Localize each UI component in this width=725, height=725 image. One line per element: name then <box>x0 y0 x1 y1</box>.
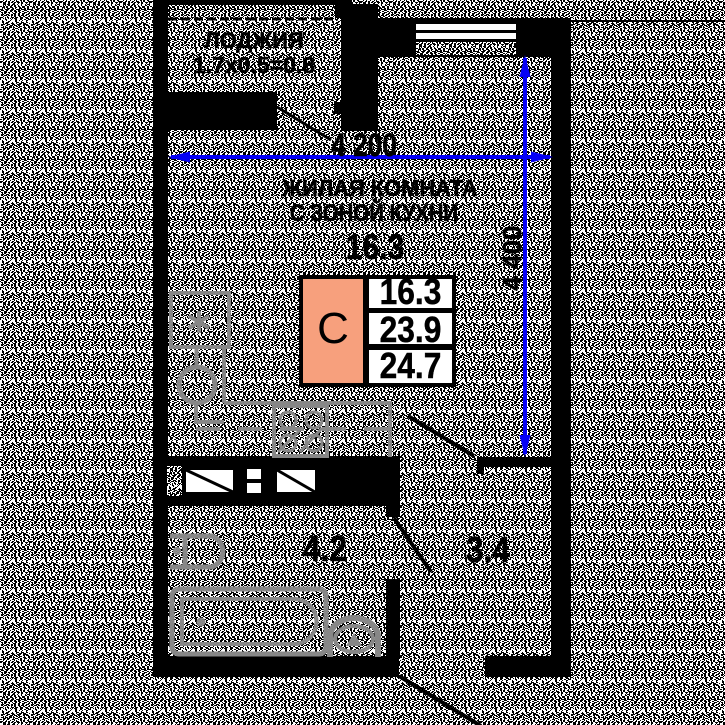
bathtub inner <box>182 599 317 644</box>
washbasin <box>170 536 223 567</box>
dim text 4200 <box>331 129 397 161</box>
wall interior vertical lower <box>386 579 400 659</box>
shaft gap noise <box>167 466 182 496</box>
shaft box B diagonal <box>274 467 318 495</box>
loggia area label <box>168 54 340 77</box>
wall interior vertical upper <box>386 456 400 517</box>
shaft box B <box>274 467 318 495</box>
info table row3 <box>369 350 452 383</box>
room label line2 <box>272 202 476 226</box>
window line 1 <box>416 30 516 33</box>
hob burners <box>278 412 322 452</box>
dimension 4400 line <box>523 58 527 454</box>
wall loggia top <box>153 0 351 5</box>
wall mid stub right <box>477 457 571 467</box>
wall loggia right upper <box>335 0 351 18</box>
shaft middle white marks <box>247 469 261 479</box>
info table row1 <box>369 279 452 308</box>
fridge-sink stub <box>195 347 199 368</box>
info table letter C <box>303 304 363 354</box>
dimension 4200 line <box>168 55 553 457</box>
top wall edge line into right margin <box>571 20 725 22</box>
dim text 4400 (rotated) <box>499 223 525 293</box>
sink circle <box>179 367 215 403</box>
info table frame <box>299 275 456 387</box>
shaft box A diagonal <box>183 467 236 495</box>
wall mid stub step <box>477 457 484 474</box>
loggia label <box>168 30 340 52</box>
window opening <box>416 24 516 42</box>
room area 16.3 <box>311 230 440 265</box>
bathtub drain <box>197 618 206 627</box>
wall bottom <box>153 656 399 677</box>
wall pier center top <box>341 4 378 131</box>
wall left outer <box>153 0 168 677</box>
table value 23.9 <box>374 312 447 348</box>
wall pier notch <box>334 102 341 114</box>
wall top band <box>378 18 571 57</box>
sink bottom line <box>196 420 224 424</box>
wall loggia sill bar <box>153 92 277 130</box>
shaft box A <box>183 467 236 495</box>
kitchen counter line under fridge <box>169 345 226 349</box>
entry door diagonal <box>399 676 481 725</box>
kitchen fridge box <box>171 293 229 347</box>
counter right of sink vertical <box>222 349 226 403</box>
counter front edge <box>224 401 392 405</box>
wall mid band <box>166 456 400 506</box>
table value 24.7 <box>374 348 447 384</box>
hall area 3.4 <box>453 532 523 569</box>
fridge asterisk <box>189 311 209 333</box>
counter dashed centerline <box>196 427 392 431</box>
hall door diagonal <box>408 416 474 456</box>
bathroom door diagonal <box>394 518 431 572</box>
info table orange cell <box>303 279 363 383</box>
window sill halftone <box>416 42 516 55</box>
sink stub down <box>194 403 198 424</box>
room label line1 <box>264 177 497 201</box>
counter right end vertical <box>388 403 392 457</box>
hob square <box>274 406 327 456</box>
balcony door diagonal <box>277 107 331 140</box>
bath area 4.2 <box>290 531 360 568</box>
loggia glazing line <box>168 17 338 21</box>
toilet bowl <box>330 618 378 657</box>
bathtub outer <box>172 589 326 654</box>
info table row2 <box>369 313 452 344</box>
table value 16.3 <box>374 274 447 310</box>
wall right outer <box>551 18 571 677</box>
window line 2 <box>416 39 516 42</box>
wall bottom-right foot <box>485 656 571 677</box>
